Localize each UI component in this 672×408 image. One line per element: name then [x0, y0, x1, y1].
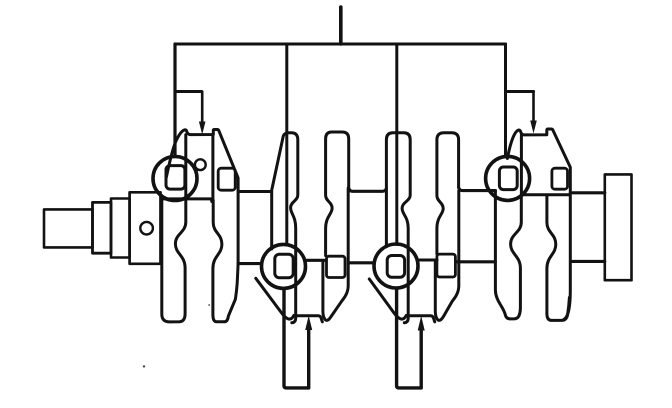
snout step 2: [93, 202, 112, 253]
main journal 4 top edge: [459, 187, 496, 190]
callout channel 2 (bottom right): [397, 289, 421, 388]
main journal 3 bottom edge: [349, 261, 374, 264]
square mark S3: [275, 254, 293, 277]
circle marker 3: [374, 244, 418, 288]
arrow up to rod journal 3: [420, 330, 423, 388]
wire: callout stem top center: [339, 7, 343, 44]
rod journal 2 bottom edge (notch floor): [296, 316, 322, 322]
journal line circle3 to S6: [419, 258, 437, 261]
wire: callout bracket horizontal: [175, 43, 506, 46]
wire: bracket vertical 3 down to circle 3: [395, 44, 398, 245]
wire: bracket right jog: [506, 90, 534, 93]
wire: bracket vertical 2 down to circle 2: [285, 44, 288, 245]
web W4 right edge silhouette and leg: [323, 188, 348, 320]
main journal 5 top edge: [572, 191, 605, 194]
square mark S5: [387, 256, 404, 278]
square mark S2: [218, 168, 235, 190]
journal line circle2 to S4: [307, 259, 327, 262]
web W6 right edge silhouette and leg: [435, 191, 459, 321]
circle marker 1: [153, 157, 197, 201]
snout step 3: [111, 199, 130, 258]
main journal 2 bottom edge: [238, 262, 261, 265]
web faces bottom edge: [161, 199, 212, 202]
arrow down to web W8 top face: [532, 92, 535, 122]
web W7 | W8 face boundary line: [520, 135, 523, 195]
web W6 column: rounded top, left edge with journal bulge: [437, 133, 459, 254]
main journal 3 top edge with fillets: [349, 188, 387, 191]
square mark S8: [552, 168, 568, 189]
hole on web W2 face: [195, 159, 206, 170]
web W3 column: rounded top, left edge down to circle 2: [272, 133, 298, 323]
scan noise dot near web W2 leg: [208, 304, 210, 306]
web W8 right edge silhouette: [564, 193, 571, 320]
wire: bracket left vertical down to circle 1: [173, 44, 176, 157]
rear flange: [605, 174, 632, 280]
square mark S1: [166, 166, 185, 190]
wire: bracket left jog: [175, 90, 202, 93]
web W8 face bottom edge: [521, 193, 569, 196]
web W8 leg (counterweight with S-curve): [547, 195, 570, 321]
web W7 left edge and leg (counterweight with S-curve): [495, 191, 521, 319]
main journal 2 top edge: [238, 190, 271, 193]
arrow up to rod journal 2: [307, 329, 310, 388]
web W3 leg outer slant under circle 2: [256, 278, 294, 319]
arrow down to web W1 top face: [201, 92, 204, 123]
web W2 leg (counterweight with S-curve and slanted right edge): [213, 200, 238, 322]
web W2 side face right boundary line: [211, 135, 214, 201]
rod journal 3 bottom edge (notch floor): [409, 316, 435, 322]
square mark S7: [499, 167, 517, 190]
callout channel 1 (bottom left): [284, 289, 309, 388]
circle marker 4: [486, 156, 530, 200]
main journal 4 bottom edge: [456, 260, 496, 263]
web W5 leg outer slant under circle 3: [369, 279, 406, 319]
main journal 1 flange block: [130, 192, 161, 263]
web W7/W8 outer outline: left fin, top face, right ear tab, slant: [507, 129, 570, 193]
web W4 column: rounded top, left edge with journal bulge: [326, 132, 349, 256]
oil hole on flange: [140, 222, 153, 235]
square mark S4: [327, 256, 346, 277]
web W5 column: rounded top, edges down to circle 3: [386, 133, 410, 323]
wire: bracket right vertical down to circle 4: [504, 44, 507, 157]
web W1/W2 outer outline: left fin, top face, right ear tab, slant: [166, 130, 238, 264]
crankshaft snout: [44, 209, 93, 247]
web W1 | W2 face boundary and W1 leg (counterweight with S-curve): [162, 135, 186, 322]
scan noise dot lower left: [143, 365, 145, 367]
square mark S6: [437, 254, 456, 277]
circle marker 2: [262, 244, 306, 288]
main journal 5 bottom edge: [572, 260, 605, 263]
